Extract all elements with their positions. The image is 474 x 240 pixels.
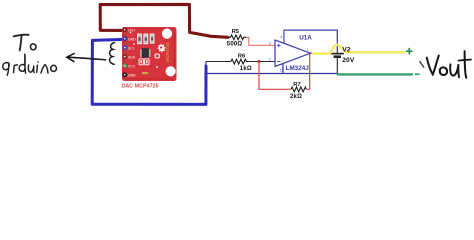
wire yellow op-amp output with hop over battery lead [313,45,404,54]
DAC breakout board MCP4725 [122,27,177,81]
feedback right leg red [306,54,309,90]
wire dark-red from DAC OUT to R5 [100,4,228,37]
board pin GND [122,36,127,41]
svg-text:500Ω: 500Ω [227,42,243,48]
svg-text:3: 3 [269,41,271,45]
svg-text:OUT: OUT [128,29,135,33]
op-amp V+ pin stub [283,30,285,43]
wire R6 net: corner down to ground rail [205,62,207,74]
resistor R5 500ohm [227,29,246,48]
resistor R6 1kohm [231,54,252,73]
wire red R5 to op-amp +input [246,37,275,45]
handwritten Vout [420,51,471,78]
svg-text:U1A: U1A [299,34,312,41]
svg-text:2: 2 [269,58,271,62]
svg-text:2kΩ: 2kΩ [290,94,302,100]
handwritten arrow to pins [67,53,106,61]
board pin SCL [122,45,127,50]
ground rail wire [206,73,337,75]
wire blue from DAC GND pin to ground node [92,39,206,104]
board pin SDA [122,54,127,59]
wire R6 left lead [206,61,231,63]
svg-text:DAC MCP4725: DAC MCP4725 [122,84,159,90]
feedback loop wire red [259,63,291,90]
svg-text:SDA: SDA [128,56,136,60]
handwritten arduino [3,54,57,76]
svg-text:1: 1 [307,48,309,52]
svg-text:SCL: SCL [128,47,135,51]
svg-text:4: 4 [280,35,282,39]
plus probe marker [406,48,413,55]
board pin VCC [122,63,127,68]
battery V2 20V [331,49,344,74]
minus probe marker [415,73,420,75]
svg-text:20V: 20V [342,57,355,64]
op-amp output stub [311,52,315,54]
node junction feedback [258,60,261,63]
op-amp U1A LM324J [269,30,315,73]
wire R6 to op-amp -input [249,61,275,63]
resistor R7 2kohm [290,82,306,100]
svg-text:1kΩ: 1kΩ [240,66,252,72]
svg-text:V2: V2 [342,47,350,54]
svg-text:MCP4725: MCP4725 [165,42,170,62]
wire V+ top rail to battery [284,30,337,48]
handwritten brace [110,43,115,65]
board pin OUT [122,27,127,32]
op-amp V- pin stub [282,64,284,74]
svg-text:VCC: VCC [128,65,136,69]
svg-text:GND: GND [128,38,136,42]
handwritten To [14,35,37,51]
wire green ground return [338,73,412,75]
svg-text:GND: GND [128,74,136,78]
svg-text:R5: R5 [232,29,240,35]
svg-text:LM324J: LM324J [286,65,310,72]
svg-text:R6: R6 [238,54,246,60]
board pin GND2 [122,72,127,77]
svg-text:R7: R7 [293,82,300,88]
